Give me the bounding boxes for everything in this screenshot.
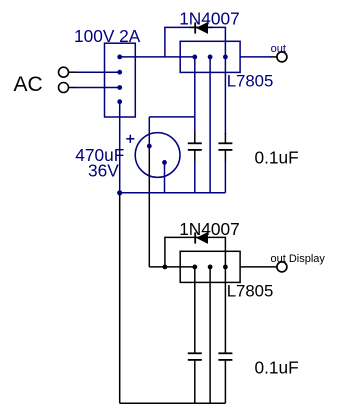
wire ground rail top — [120, 192, 226, 194]
capacitor C3 0.1uF lower lead — [224, 150, 226, 162]
pin C1 - — [162, 160, 167, 165]
wire U1 input pin down upper part — [194, 57, 196, 134]
wire U1 ground pin to ground rail — [209, 57, 211, 193]
wire V+ to U2 input pin — [149, 266, 195, 268]
pin U1.1 input — [192, 55, 197, 60]
capacitor C3 0.1uF plates — [218, 142, 232, 144]
pin U2.3 output — [223, 265, 228, 270]
svg-text:0.1uF: 0.1uF — [255, 148, 299, 168]
diode D2 1N4007 triangle — [196, 232, 208, 244]
regulator U1 L7805 body — [180, 41, 240, 72]
wire C1 + to filter node — [148, 117, 150, 146]
pin TR1 secondary + — [117, 55, 122, 60]
pin TR1 primary 2 — [117, 85, 122, 90]
capacitor C2 0.1uF input upper lead — [194, 133, 196, 143]
terminal out — [277, 52, 287, 62]
wire C4 to bottom rail — [194, 360, 196, 403]
wire ground down left side — [119, 193, 121, 403]
regulator U2 L7805 body — [180, 251, 240, 282]
svg-text:out: out — [271, 43, 286, 55]
wire D2 bypass loop — [165, 237, 226, 267]
wire C3 to ground rail — [224, 162, 226, 193]
wire D1 bypass loop — [165, 27, 226, 57]
wire U1 output pin down upper part — [224, 57, 226, 134]
svg-text:36V: 36V — [88, 160, 119, 180]
wire filter node to U1 input line — [149, 116, 195, 118]
capacitor C2 0.1uF lower lead — [194, 150, 196, 162]
junction ground rail — [117, 190, 122, 195]
capacitor C2 0.1uF plates — [188, 142, 202, 144]
capacitor C4 0.1uF plates — [188, 352, 202, 354]
wire out terminal stub — [271, 56, 277, 58]
wire AC terminal 2 stub — [69, 87, 77, 89]
junction D2 anode — [163, 265, 168, 270]
svg-text:AC: AC — [14, 73, 43, 96]
wire bottom ground rail — [120, 402, 226, 404]
svg-text:L7805: L7805 — [227, 281, 274, 300]
wire U2 ground pin to bottom rail — [209, 267, 211, 403]
diode D1 1N4007 cathode bar — [194, 22, 196, 33]
wire C2 to ground rail — [194, 162, 196, 193]
wire D1 lead segment — [189, 26, 213, 28]
svg-text:0.1uF: 0.1uF — [255, 358, 299, 378]
pin TR1 primary 1 — [117, 70, 122, 75]
wire TR1 secondary + to U1 input — [120, 56, 195, 58]
svg-text:1N4007: 1N4007 — [179, 219, 240, 239]
wire U2 output pin down — [224, 267, 226, 353]
pin U1.2 ground — [208, 55, 213, 60]
terminal out Display — [277, 262, 287, 272]
capacitor C1 470uF body — [135, 133, 180, 178]
wire U2 output to out Display terminal — [240, 266, 277, 268]
capacitor C3 0.1uF output upper lead — [224, 133, 226, 143]
capacitor C5 0.1uF plates — [218, 352, 232, 354]
pin U2.1 input — [192, 265, 197, 270]
terminal AC line 1 — [59, 67, 69, 77]
pin U2.2 ground — [208, 265, 213, 270]
svg-text:out Display: out Display — [271, 253, 326, 265]
terminal AC line 2 — [59, 83, 69, 93]
diode D2 1N4007 cathode bar — [194, 232, 196, 243]
pin C1 + — [147, 144, 152, 149]
wire C1 - to ground rail — [164, 162, 166, 192]
pin U1.3 output — [223, 55, 228, 60]
diode D1 1N4007 triangle — [196, 22, 208, 34]
wire V+ down to U2 input — [148, 146, 150, 267]
wire U1 output to out terminal — [240, 56, 271, 58]
svg-text:1N4007: 1N4007 — [179, 9, 240, 29]
pin TR1 secondary - — [117, 99, 122, 104]
svg-text:L7805: L7805 — [227, 71, 274, 90]
transformer TR1 100V 2A body — [105, 43, 136, 117]
wire C5 to bottom rail — [224, 360, 226, 403]
wire U2 input pin down — [194, 267, 196, 353]
wire TR1 secondary - down to ground rail — [119, 102, 121, 193]
wire AC line 1 to transformer — [76, 71, 120, 73]
wire AC terminal 1 stub — [69, 71, 77, 73]
label C1 plus sign — [126, 138, 134, 140]
wire AC line 2 to transformer — [76, 87, 120, 89]
